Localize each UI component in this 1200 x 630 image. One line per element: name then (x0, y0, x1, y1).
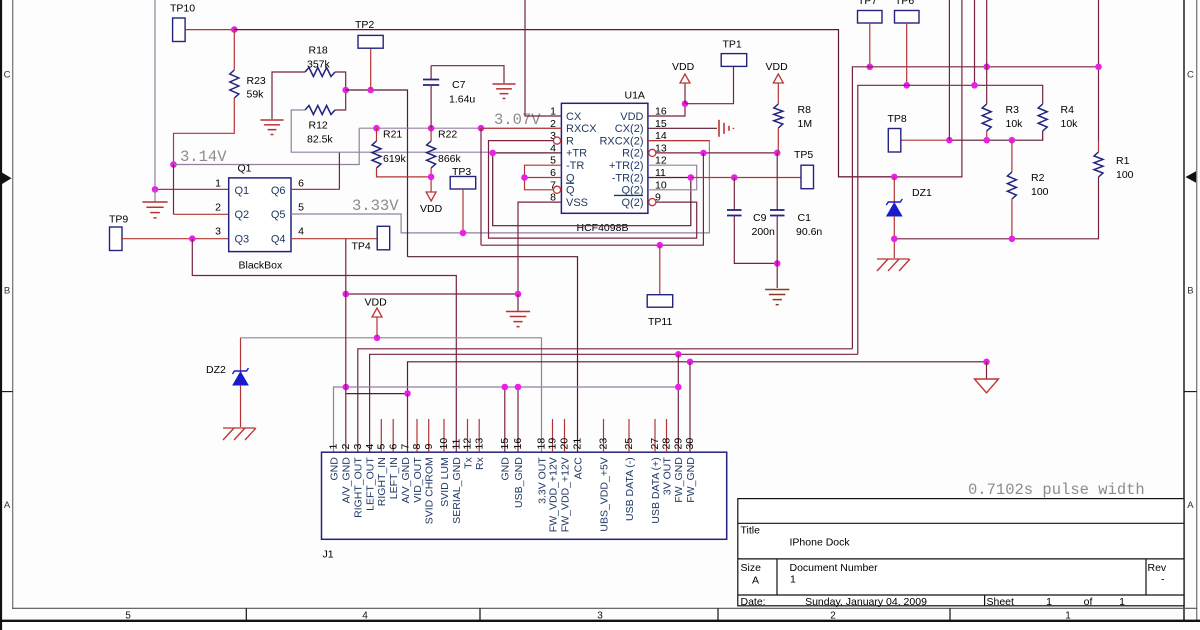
wire Q1 pin2 branch (173, 165, 175, 215)
svg-text:RIGHT_IN: RIGHT_IN (376, 457, 388, 506)
wire U1A pin15 to earth bars (648, 127, 717, 129)
svg-text:+TR(2): +TR(2) (609, 160, 644, 172)
resistor R3 (982, 104, 991, 131)
svg-text:-TR(2): -TR(2) (612, 172, 644, 184)
wire pin7 vertical (407, 393, 409, 452)
wire C7 top to ground (431, 66, 504, 83)
svg-text:2: 2 (340, 444, 352, 450)
svg-text:A/V_GND: A/V_GND (341, 457, 353, 504)
svg-text:of: of (1084, 596, 1093, 608)
svg-text:5: 5 (298, 202, 304, 214)
wire R8 bottom lead (777, 128, 779, 153)
capacitor C7 (430, 66, 432, 79)
wire long top line TP10 junction to right corner x838 (234, 30, 894, 177)
wire x481 branch down to outer loop (480, 128, 482, 245)
wire TP6 lead (906, 23, 908, 85)
wire R1 leads (1098, 141, 1100, 152)
svg-text:30: 30 (684, 438, 696, 450)
svg-text:VDD: VDD (420, 203, 443, 215)
svg-text:1: 1 (1065, 611, 1071, 622)
node U1A pin4 junction (489, 150, 496, 157)
testpoint TP6 (895, 11, 920, 24)
IC Q1 box (229, 178, 291, 252)
node VDD TP1 junction (682, 100, 689, 107)
wire pin30 vertical (689, 362, 691, 452)
svg-text:Date:: Date: (741, 596, 766, 608)
svg-text:SVID CHROM: SVID CHROM (424, 457, 436, 524)
svg-text:Q(2): Q(2) (622, 197, 644, 209)
svg-text:Sheet: Sheet (987, 596, 1015, 608)
wire TP1 lead (685, 67, 734, 104)
svg-text:59k: 59k (247, 89, 265, 101)
wire pin4 line (370, 354, 858, 452)
wire R21 bottom to R22 bottom (377, 168, 432, 177)
node pin13 R8 C1 junction (774, 150, 781, 157)
node R21 R22 bottom junction (428, 174, 435, 181)
node U1A pin11 junction (688, 174, 695, 181)
svg-text:C7: C7 (452, 79, 466, 91)
svg-text:C: C (1187, 70, 1194, 81)
node pin29 tap (675, 351, 682, 358)
svg-text:RXCX: RXCX (566, 123, 597, 135)
svg-text:VSS: VSS (566, 197, 588, 209)
svg-text:VID_OUT: VID_OUT (412, 457, 424, 503)
svg-text:R(2): R(2) (622, 148, 643, 160)
wire U1A pin3 loop to pin9 (489, 141, 697, 239)
IC U1A box (561, 103, 648, 213)
wire TP6 line (858, 85, 1043, 354)
svg-text:TP6: TP6 (895, 0, 914, 7)
node x481 branch (478, 125, 485, 132)
node DZ1 top (891, 174, 898, 181)
node TP6 line x974 (971, 82, 978, 89)
wire pin3 line (358, 349, 853, 452)
power VDD arrow down below R22 (426, 192, 436, 201)
svg-text:Q1: Q1 (235, 185, 250, 197)
node R2 top (1009, 137, 1016, 144)
svg-text:FW_VDD_+12V: FW_VDD_+12V (559, 457, 571, 532)
zener DZ2 (240, 338, 242, 372)
node VDD arrow junction (374, 335, 381, 342)
svg-text:LEFT_IN: LEFT_IN (388, 457, 400, 499)
svg-text:TP11: TP11 (648, 316, 672, 328)
wire pin4line Q1 link to U1A pin4 (339, 151, 492, 153)
svg-text:3.14V: 3.14V (180, 148, 227, 166)
wire TP9 net down and right to J1 pin 11 (192, 239, 456, 453)
svg-text:23: 23 (598, 438, 610, 450)
svg-text:25: 25 (623, 438, 635, 450)
svg-text:Q6: Q6 (271, 185, 286, 197)
resistor R12 (305, 106, 335, 115)
svg-text:Q2: Q2 (235, 209, 250, 221)
svg-text:6: 6 (298, 178, 304, 190)
svg-text:1: 1 (328, 444, 340, 450)
zener DZ1 (893, 177, 895, 203)
testpoint TP8 (888, 129, 901, 153)
resistor R21 (372, 141, 381, 168)
wire R8 top lead (777, 83, 779, 104)
svg-text:1.64u: 1.64u (449, 94, 475, 106)
node TP8 line x949 (946, 137, 953, 144)
svg-text:GND: GND (500, 457, 512, 481)
wire TP2 lead (370, 48, 372, 90)
node VSS left (343, 291, 350, 298)
svg-text:3.07V: 3.07V (494, 111, 541, 129)
svg-text:4: 4 (362, 611, 368, 622)
svg-text:10: 10 (438, 438, 450, 450)
svg-text:VDD: VDD (766, 61, 789, 73)
ground below Q1 pin1 node (154, 189, 156, 201)
left border arrow marker (2, 173, 12, 185)
svg-text:J1: J1 (323, 549, 334, 561)
wire U1A pin8 VSS down (518, 202, 561, 294)
svg-text:Document Number: Document Number (790, 562, 879, 574)
svg-text:RIGHT_OUT: RIGHT_OUT (353, 457, 365, 518)
testpoint TP7 (858, 11, 883, 24)
svg-text:TP4: TP4 (352, 241, 371, 253)
svg-text:8: 8 (411, 444, 423, 450)
svg-text:11: 11 (451, 438, 463, 449)
node lineB pin7 (404, 390, 411, 397)
svg-text:Q4: Q4 (271, 233, 286, 245)
svg-text:1: 1 (215, 178, 221, 190)
wire TP10 to junction (185, 29, 234, 31)
svg-text:BlackBox: BlackBox (239, 260, 284, 272)
svg-text:866k: 866k (438, 153, 462, 165)
svg-text:B: B (1187, 286, 1193, 297)
svg-text:TP2: TP2 (355, 19, 374, 31)
node TP6 (903, 82, 910, 89)
svg-text:19: 19 (547, 438, 559, 450)
svg-text:4: 4 (298, 226, 304, 238)
svg-text:16: 16 (512, 438, 524, 450)
wire pin16 vertical to J1 (517, 387, 519, 452)
wire U1A pin16 VDD (648, 104, 685, 116)
svg-text:12: 12 (462, 438, 474, 450)
wire R1 vertical from top edge (1098, 0, 1100, 67)
ground right of C7 (492, 83, 515, 85)
svg-text:3V OUT: 3V OUT (661, 457, 673, 496)
wire U1A pin2 3.07V (481, 127, 561, 129)
svg-text:HCF4098B: HCF4098B (577, 222, 629, 234)
svg-text:USB DATA (-): USB DATA (-) (624, 457, 636, 521)
svg-text:3: 3 (597, 611, 603, 622)
svg-text:FW_VDD_+12V: FW_VDD_+12V (547, 457, 559, 532)
svg-text:-: - (1161, 574, 1165, 586)
svg-text:USB_GND: USB_GND (513, 457, 525, 508)
svg-text:A: A (752, 575, 759, 587)
svg-text:ACC: ACC (572, 457, 584, 480)
resistor R18 (305, 68, 335, 77)
node U1A pin6 junction (521, 174, 528, 181)
wire x407 corner to pin21 trace (408, 257, 578, 453)
svg-text:21: 21 (572, 438, 584, 450)
wire 3.14V net horizontal (174, 128, 360, 164)
svg-text:4: 4 (364, 444, 376, 450)
node gnd triangle tap (983, 359, 990, 366)
svg-text:R22: R22 (438, 129, 457, 141)
svg-text:TP8: TP8 (888, 113, 907, 125)
wire gnd triangle lead (986, 362, 988, 379)
earth ground sideways at pin15 (718, 120, 720, 137)
svg-text:Tx: Tx (462, 456, 474, 468)
testpoint TP9 (110, 227, 123, 251)
svg-text:R18: R18 (309, 45, 328, 57)
wire R23 top lead (233, 30, 235, 70)
svg-text:1: 1 (1046, 596, 1052, 608)
svg-text:R12: R12 (309, 120, 328, 132)
svg-text:TP9: TP9 (109, 214, 128, 226)
wire vertical from top to TP8 line (948, 0, 950, 140)
node R3 bottom (983, 137, 990, 144)
svg-text:3: 3 (352, 444, 364, 450)
svg-text:B: B (4, 286, 10, 297)
wire VDD arrow lead (684, 83, 686, 104)
svg-text:TP5: TP5 (794, 149, 813, 161)
svg-text:1: 1 (1119, 596, 1125, 608)
wire pin15 vertical to J1 (504, 387, 506, 452)
svg-text:C9: C9 (753, 212, 767, 224)
wire VDD line DZ2 to pin18 (241, 338, 542, 452)
node R2 bottom (1009, 236, 1016, 243)
wire U1A pin13 net (656, 152, 777, 154)
testpoint TP11 (647, 295, 673, 308)
chassis ground below DZ2 (223, 427, 255, 429)
svg-text:VDD: VDD (672, 61, 695, 73)
node TP9 net junction (189, 235, 196, 242)
svg-text:Size: Size (741, 562, 762, 574)
svg-text:R2: R2 (1031, 172, 1045, 184)
testpoint TP2 (358, 35, 383, 48)
svg-text:GND: GND (328, 457, 340, 481)
svg-text:-TR: -TR (566, 160, 584, 172)
wire R3 R4 bottoms TP8 line (901, 139, 949, 141)
svg-text:619k: 619k (383, 153, 407, 165)
node TP11 junction (657, 242, 664, 249)
wire gnd line L4 (408, 362, 987, 393)
wire R2 leads (1011, 140, 1013, 172)
node lineA pin16 (515, 384, 522, 391)
svg-text:2: 2 (830, 611, 836, 622)
svg-text:100: 100 (1116, 169, 1134, 181)
svg-text:VDD: VDD (365, 297, 388, 309)
node pin30 tap (687, 359, 694, 366)
node R21 top (373, 125, 380, 132)
wire R22 top lead (430, 128, 432, 141)
svg-text:R8: R8 (798, 104, 812, 116)
svg-text:10k: 10k (1061, 118, 1079, 130)
svg-text:TP10: TP10 (170, 3, 195, 15)
svg-text:UBS_VDD_+5V: UBS_VDD_+5V (598, 457, 610, 531)
svg-text:CX: CX (566, 111, 582, 123)
wire pin29 vertical (677, 354, 679, 452)
wire pin2 vertical (345, 239, 347, 453)
svg-text:CX(2): CX(2) (615, 123, 644, 135)
svg-text:100: 100 (1031, 186, 1049, 198)
svg-text:R: R (566, 135, 574, 147)
wire R12 right to junction (335, 90, 346, 110)
svg-text:Title: Title (741, 525, 761, 537)
wire junction line to TP2 and corner down x407.5 (346, 90, 408, 257)
wire U1A pin5 to pin7 link (525, 165, 562, 190)
svg-text:10k: 10k (1006, 118, 1024, 130)
power VDD arrow near TP1 (680, 74, 690, 83)
svg-text:TP1: TP1 (723, 39, 742, 51)
wire pin13 branch down to outer loop (481, 153, 703, 245)
node R22 top (428, 125, 435, 132)
testpoint TP4 (377, 226, 390, 250)
node TP10 junction (231, 26, 238, 33)
svg-text:Rev: Rev (1148, 562, 1167, 574)
resistor R8 (774, 104, 783, 128)
svg-text:USB DATA (+): USB DATA (+) (650, 457, 662, 523)
svg-text:2: 2 (215, 202, 221, 214)
wire TP3 lead down (462, 189, 464, 233)
svg-text:5: 5 (376, 444, 388, 450)
ground below VSS node (517, 294, 519, 311)
node lineA pin2 (343, 384, 350, 391)
wire U1A pin12 to pin10 link (648, 165, 697, 190)
svg-text:U1A: U1A (625, 90, 645, 102)
wire R21 top lead (376, 128, 378, 141)
svg-text:SERIAL_GND: SERIAL_GND (451, 457, 463, 524)
resistor R2 (1007, 172, 1016, 199)
testpoint TP3 (450, 177, 476, 190)
wire R22 bottom lead (430, 168, 432, 192)
svg-text:20: 20 (559, 438, 571, 450)
svg-text:R3: R3 (1006, 104, 1020, 116)
node TP7 (867, 64, 874, 71)
svg-text:9: 9 (423, 444, 435, 450)
wire VDD arrow lead (376, 317, 378, 338)
capacitor C9 (733, 178, 735, 210)
svg-text:Q1: Q1 (238, 163, 252, 175)
svg-text:6: 6 (387, 444, 399, 450)
svg-text:LEFT_OUT: LEFT_OUT (364, 457, 376, 511)
svg-text:7: 7 (400, 444, 412, 450)
node lineA pin29 (675, 384, 682, 391)
svg-text:27: 27 (649, 438, 661, 450)
wire TP9 to Q1 pin3 (122, 238, 229, 240)
border column ticks (245, 608, 247, 620)
wire TP11 lead (659, 245, 661, 295)
svg-text:3: 3 (215, 226, 221, 238)
wire R3 vertical from top edge (986, 0, 988, 104)
node 3.14V (170, 161, 177, 168)
node C9 junction (731, 174, 738, 181)
ground below R18 left (260, 119, 283, 121)
svg-text:RXCX(2): RXCX(2) (599, 135, 643, 147)
node TP2 junction (367, 87, 374, 94)
wire line B (346, 393, 408, 395)
J1 pin stubs (380, 419, 382, 452)
wire R18 right to junction (335, 72, 346, 90)
svg-text:C1: C1 (798, 212, 812, 224)
svg-text:82.5k: 82.5k (307, 134, 333, 146)
resistor R4 (1038, 104, 1047, 131)
svg-text:DZ1: DZ1 (912, 187, 932, 199)
node lineA pin15 (502, 384, 509, 391)
svg-text:FW_GND: FW_GND (673, 457, 685, 503)
right border arrow marker (1186, 171, 1197, 183)
svg-text:VDD: VDD (620, 111, 643, 123)
svg-text:R21: R21 (383, 129, 402, 141)
wire U1A pin4 loop to pin11 (493, 153, 691, 226)
border row ticks (0, 391, 13, 393)
testpoint TP10 (173, 18, 186, 42)
wire long vertical from top at x=155 (154, 0, 156, 189)
svg-text:+TR: +TR (566, 148, 587, 160)
svg-text:90.6n: 90.6n (796, 226, 822, 238)
svg-text:357k: 357k (307, 59, 331, 71)
node R3 top (983, 64, 990, 71)
resistor R22 (427, 141, 436, 168)
svg-text:A/V_GND: A/V_GND (400, 457, 412, 504)
wire U1A pin1 from top (525, 0, 561, 116)
title block (738, 499, 1184, 606)
svg-text:200n: 200n (752, 226, 776, 238)
wire Q1 pin4 to TP4 (291, 238, 377, 240)
U1A Q bar marks (566, 182, 574, 184)
node R1 top (1095, 64, 1102, 71)
svg-text:29: 29 (673, 438, 685, 450)
resistor R23 (230, 70, 239, 98)
svg-text:TP7: TP7 (858, 0, 877, 7)
node DZ1 bottom (891, 236, 898, 243)
wire Q1 pin1 to ground node (155, 188, 229, 190)
wire Q1 pin6 to link vertical (291, 188, 339, 190)
power ground open triangle (975, 379, 999, 393)
testpoint TP5 (801, 165, 814, 189)
svg-text:Q5: Q5 (271, 209, 286, 221)
svg-text:1: 1 (790, 574, 796, 586)
capacitor C1 (776, 153, 778, 210)
wire TP7 line (852, 67, 1098, 349)
svg-text:Rx: Rx (474, 456, 486, 470)
svg-text:28: 28 (661, 438, 673, 450)
svg-text:R1: R1 (1116, 155, 1130, 167)
svg-text:13: 13 (473, 438, 485, 450)
svg-text:Q3: Q3 (235, 233, 250, 245)
wire 3.07V line (359, 127, 561, 129)
connector J1 box (322, 452, 727, 539)
svg-text:1M: 1M (798, 118, 813, 130)
svg-text:5: 5 (125, 611, 131, 622)
svg-text:0.7102s pulse width: 0.7102s pulse width (968, 481, 1145, 499)
svg-text:Q: Q (566, 185, 575, 197)
svg-text:SVID LUM: SVID LUM (439, 457, 451, 507)
wire VSS net horizontal (346, 293, 518, 295)
resistor R1 (1094, 152, 1103, 177)
testpoint TP1 (721, 54, 747, 67)
wire Q1 pin5 3.33V line (291, 141, 709, 233)
chassis ground below DZ1 (877, 258, 909, 260)
U1A pin bubbles (553, 137, 560, 144)
svg-text:R4: R4 (1061, 104, 1075, 116)
power VDD arrow mid (372, 308, 382, 317)
wire TP7 lead (869, 23, 871, 67)
svg-text:Sunday, January 04, 2009: Sunday, January 04, 2009 (805, 596, 927, 608)
wire C7 bottom to 3.07V node (430, 85, 432, 128)
svg-text:IPhone Dock: IPhone Dock (790, 537, 851, 549)
node junction at ground x155 (152, 186, 159, 193)
wire pin11 net to TP5 (691, 177, 801, 179)
wire R12 left down to pin4 line (291, 110, 339, 152)
node VSS ground (515, 291, 522, 298)
svg-text:15: 15 (499, 438, 511, 450)
wire vertical from top to TP6 line (974, 0, 976, 85)
ground below C1 (765, 289, 789, 291)
